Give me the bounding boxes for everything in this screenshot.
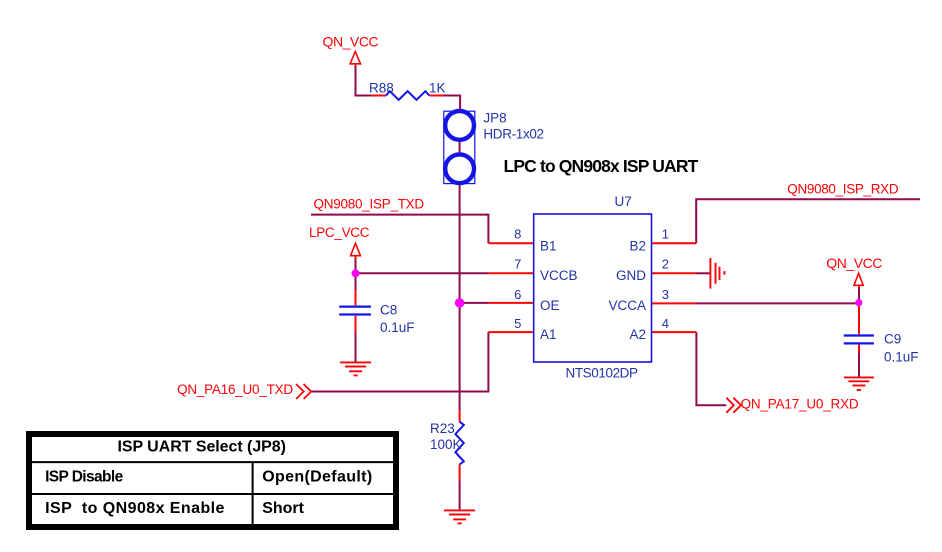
svg-text:NTS0102DP: NTS0102DP xyxy=(566,366,639,381)
svg-text:0.1uF: 0.1uF xyxy=(380,320,415,335)
svg-text:R23: R23 xyxy=(430,421,455,436)
svg-text:7: 7 xyxy=(514,257,521,272)
svg-text:2: 2 xyxy=(662,257,669,272)
svg-text:HDR-1x02: HDR-1x02 xyxy=(483,126,543,141)
svg-text:6: 6 xyxy=(514,287,521,302)
svg-text:GND: GND xyxy=(616,268,646,283)
svg-text:LPC_VCC: LPC_VCC xyxy=(309,225,370,240)
svg-text:A1: A1 xyxy=(540,327,557,342)
svg-text:3: 3 xyxy=(662,287,669,302)
svg-text:OE: OE xyxy=(540,298,560,313)
svg-text:U7: U7 xyxy=(615,194,632,209)
svg-text:QN_PA17_U0_RXD: QN_PA17_U0_RXD xyxy=(741,397,859,412)
svg-text:5: 5 xyxy=(514,316,521,331)
svg-text:1K: 1K xyxy=(429,81,446,96)
svg-text:4: 4 xyxy=(662,316,669,331)
svg-text:B1: B1 xyxy=(540,238,557,253)
svg-text:1: 1 xyxy=(662,227,669,242)
svg-text:ISP Disable: ISP Disable xyxy=(45,468,124,485)
svg-text:C8: C8 xyxy=(380,303,397,318)
svg-text:VCCB: VCCB xyxy=(540,268,578,283)
svg-text:R88: R88 xyxy=(369,81,394,96)
svg-text:0.1uF: 0.1uF xyxy=(884,350,919,365)
svg-text:8: 8 xyxy=(514,227,521,242)
svg-text:QN_PA16_U0_TXD: QN_PA16_U0_TXD xyxy=(177,382,293,397)
svg-text:C9: C9 xyxy=(884,332,901,347)
svg-text:Short: Short xyxy=(262,500,304,517)
svg-text:B2: B2 xyxy=(629,238,646,253)
svg-text:LPC to QN908x ISP UART: LPC to QN908x ISP UART xyxy=(504,156,699,176)
svg-text:QN9080_ISP_RXD: QN9080_ISP_RXD xyxy=(787,181,899,196)
svg-text:QN_VCC: QN_VCC xyxy=(826,255,882,271)
svg-text:ISP UART Select (JP8): ISP UART Select (JP8) xyxy=(117,439,286,456)
svg-text:100K: 100K xyxy=(430,437,462,452)
svg-text:ISP to QN908x Enable: ISP to QN908x Enable xyxy=(45,500,225,517)
svg-text:Open(Default): Open(Default) xyxy=(262,468,372,485)
svg-text:QN_VCC: QN_VCC xyxy=(323,33,379,49)
svg-text:QN9080_ISP_TXD: QN9080_ISP_TXD xyxy=(314,197,425,212)
svg-text:A2: A2 xyxy=(629,327,646,342)
svg-text:JP8: JP8 xyxy=(483,111,506,126)
svg-text:VCCA: VCCA xyxy=(608,298,646,313)
